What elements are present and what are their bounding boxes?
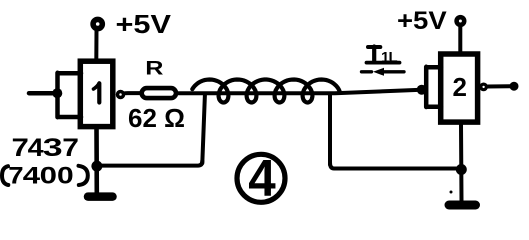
ground return wire (right loop) (330, 163, 462, 169)
wire: gate 2 ground lead (459, 125, 464, 201)
ground symbol (left) (88, 192, 113, 201)
svg-text:0: 0 (40, 162, 57, 189)
output bubble of gate 1 (118, 92, 124, 98)
wire: +5V terminal to gate 2 Vcc pin (458, 27, 462, 55)
svg-text:3: 3 (43, 133, 63, 161)
current label I (hand-drawn serif I) (368, 45, 380, 49)
gate U1 (7437 NAND, inputs tied) body (80, 61, 113, 126)
wire: +5V terminal to gate 1 Vcc pin (94, 30, 98, 61)
node: junction on gate 2 ground lead (456, 164, 467, 175)
label +5V (right) (397, 6, 447, 35)
wire: gate 1 ground lead (94, 127, 99, 193)
node: output stub end dot (510, 82, 519, 91)
svg-text:4: 4 (23, 162, 41, 189)
wire: input stub into gate 1 (29, 91, 57, 96)
svg-text:+5V: +5V (116, 10, 171, 39)
right parenthesis of (7400) (79, 166, 88, 185)
svg-text:L: L (389, 49, 398, 66)
label R (145, 57, 163, 79)
node: input junction dot at gate 1 inputs (52, 88, 62, 98)
long wire coil (192, 80, 339, 103)
+5V terminal circle (right) (457, 17, 465, 25)
svg-text:7: 7 (8, 163, 23, 189)
svg-text:0: 0 (57, 161, 74, 188)
node A: vertical lead down from wire after R (202, 95, 205, 163)
wire: tied-input bracket of gate 2 (426, 67, 441, 107)
wire: coil right end down (328, 94, 332, 165)
svg-text:R: R (145, 57, 163, 79)
svg-text:+5V: +5V (397, 6, 447, 35)
wire: gate 1 output to resistor R (125, 91, 140, 95)
pin label 1 (gate 1) (97, 84, 101, 103)
output bubble of gate 2 (481, 84, 487, 90)
scan speck (450, 191, 453, 194)
svg-text:7: 7 (12, 133, 29, 161)
bottom serif of I merged with underline of subscript (367, 61, 400, 65)
label +5V (left) (116, 10, 171, 39)
svg-text:2: 2 (453, 72, 467, 102)
label (7400) (8, 163, 23, 189)
figure number circle 4 (237, 154, 285, 202)
node: junction on gate 1 ground lead (91, 161, 102, 172)
wire: tied-input bracket of gate 1 (58, 73, 82, 117)
svg-text:62 Ω: 62 Ω (128, 103, 185, 133)
gate U2 body (441, 54, 478, 122)
left parenthesis of (7400) (2, 166, 8, 185)
label 7437 (12, 133, 29, 161)
ground return wire (left loop) (97, 161, 202, 166)
current direction arrow (pointing left) (362, 70, 405, 73)
node: input junction dot at gate 2 (417, 85, 427, 95)
ground symbol (right) (449, 201, 476, 210)
wire: gate 2 output stub (487, 84, 510, 88)
+5V terminal circle (left) (93, 19, 102, 28)
resistor R body (142, 88, 176, 98)
svg-text:4: 4 (28, 134, 44, 162)
svg-text:4: 4 (248, 149, 275, 207)
svg-text:7: 7 (62, 133, 79, 161)
wire: resistor through long-wire run to gate 2 input (179, 90, 422, 93)
